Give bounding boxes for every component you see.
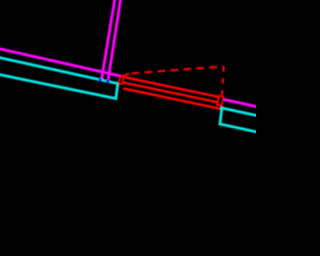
dashed header stub solid [121, 74, 130, 77]
dashed header line top [129, 66, 224, 73]
window end cap right [217, 96, 223, 106]
wall line magenta long right [223, 99, 257, 106]
window line red top [123, 77, 218, 97]
window line red bottom [123, 88, 220, 108]
wall line magenta long left [0, 48, 121, 76]
dashed header line vertical [222, 66, 224, 95]
wall line magenta vertical left [102, 0, 116, 80]
window line red middle [123, 82, 217, 102]
grip point right [106, 80, 109, 83]
cyan wall band right [220, 108, 257, 132]
grip point left [99, 79, 102, 82]
cyan wall band left [0, 57, 118, 98]
window end cap left [119, 77, 124, 84]
wall line magenta vertical right [108, 0, 121, 81]
